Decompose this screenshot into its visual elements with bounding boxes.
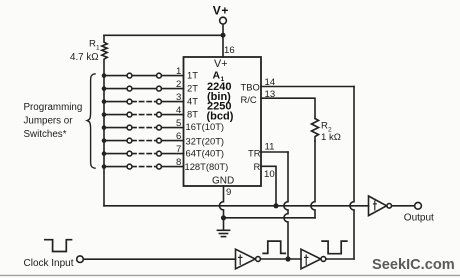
IC A1 2240(bin)/2250(bcd) programmable timer bbox=[184, 57, 262, 186]
wire jumper row 5 (dashed link) bbox=[104, 127, 127, 129]
node TR junction bbox=[285, 256, 290, 261]
svg-text:R/C: R/C bbox=[241, 94, 257, 105]
waveform: clock input negative pulse bbox=[45, 240, 72, 252]
wire pin 9 GND drop with hop over output bus bbox=[219, 186, 223, 218]
svg-text:4: 4 bbox=[176, 105, 182, 116]
svg-text:64T(40T): 64T(40T) bbox=[186, 148, 225, 159]
svg-text:Output: Output bbox=[404, 213, 434, 224]
svg-text:3: 3 bbox=[176, 92, 181, 103]
node row4 dot bbox=[102, 112, 107, 117]
svg-text:Switches*: Switches* bbox=[24, 129, 67, 140]
wire pin 10 R bbox=[261, 166, 276, 204]
wire jumper row 8 (dashed link) bbox=[104, 166, 127, 168]
inverter U3 bbox=[301, 249, 321, 269]
svg-text:2: 2 bbox=[176, 79, 181, 90]
node ground junction bbox=[221, 215, 226, 220]
node row5 dot bbox=[102, 125, 107, 130]
svg-text:R: R bbox=[89, 39, 96, 50]
svg-text:TR: TR bbox=[248, 148, 261, 159]
wire pin 13 R/C bbox=[261, 98, 315, 118]
svg-text:8T: 8T bbox=[187, 108, 198, 119]
svg-text:Jumpers or: Jumpers or bbox=[24, 116, 74, 127]
node row2 dot bbox=[102, 86, 107, 91]
V+ supply terminal bbox=[220, 17, 227, 24]
svg-text:R: R bbox=[254, 161, 261, 172]
svg-text:SeekIC.com: SeekIC.com bbox=[372, 257, 455, 273]
ground bbox=[223, 218, 225, 230]
wire clock to inverter 1 bbox=[84, 258, 236, 260]
svg-text:8: 8 bbox=[176, 157, 181, 168]
node row7 dot bbox=[102, 151, 107, 156]
node row1 dot bbox=[102, 73, 107, 78]
svg-text:Clock Input: Clock Input bbox=[24, 258, 74, 269]
svg-text:GND: GND bbox=[212, 176, 234, 187]
wire pin 11 TR with hops, to inverter1 output node bbox=[261, 151, 288, 153]
dagger symbols in inverters bbox=[238, 201, 377, 266]
resistor R2 bbox=[312, 119, 319, 142]
wire jumper row 6 (dashed link) bbox=[104, 140, 127, 142]
node R-pin to bus junction bbox=[273, 203, 278, 208]
svg-text:32T(20T): 32T(20T) bbox=[186, 136, 225, 147]
waveform: positive pulse after inverter1 bbox=[263, 241, 285, 253]
wire V+ drop to pin 16 bbox=[222, 24, 224, 57]
svg-text:9: 9 bbox=[226, 187, 231, 198]
svg-text:128T(80T): 128T(80T) bbox=[185, 161, 229, 172]
wire output bus (timer outputs) bbox=[104, 205, 369, 207]
wire jumper row 7 (dashed link) bbox=[104, 153, 127, 155]
wire jumper row 1 bbox=[104, 75, 127, 77]
svg-text:V+: V+ bbox=[214, 58, 228, 70]
wire inverter1 out to inverter2 in bbox=[261, 258, 302, 260]
bottom border line bbox=[0, 275, 460, 276]
svg-text:V+: V+ bbox=[213, 4, 229, 18]
node V+ junction bbox=[221, 33, 226, 38]
svg-text:1T: 1T bbox=[187, 69, 198, 80]
svg-text:16: 16 bbox=[224, 45, 235, 56]
svg-text:10: 10 bbox=[264, 169, 275, 180]
wire jumper row 4 (dashed link) bbox=[104, 114, 127, 116]
svg-text:A: A bbox=[213, 70, 221, 82]
wire TBO vertical with hop over bus, down to inverter2 output bbox=[350, 87, 354, 260]
svg-text:16T(10T): 16T(10T) bbox=[186, 121, 225, 132]
svg-text:1: 1 bbox=[176, 66, 181, 77]
output terminal bbox=[415, 202, 422, 209]
wire to output terminal bbox=[392, 205, 415, 207]
svg-text:1 kΩ: 1 kΩ bbox=[321, 132, 341, 143]
svg-text:Programming: Programming bbox=[24, 102, 83, 113]
resistor R1 bbox=[102, 35, 107, 75]
wire pin 14 TBO bbox=[261, 86, 354, 88]
wire left bus bbox=[103, 76, 105, 206]
svg-text:2T: 2T bbox=[187, 82, 198, 93]
svg-text:TBO: TBO bbox=[241, 82, 260, 93]
wire jumper row 2 bbox=[104, 88, 127, 90]
wire ground rail to R2 bbox=[224, 217, 316, 219]
svg-text:1: 1 bbox=[96, 45, 100, 52]
svg-text:5: 5 bbox=[176, 118, 181, 129]
wire jumper row 3 (dashed link) bbox=[104, 101, 127, 103]
node row8 dot bbox=[102, 164, 107, 169]
wire R2 bottom to ground rail (hop over bus) bbox=[311, 141, 315, 218]
brace for programming jumpers bbox=[87, 74, 95, 168]
inverter U4 (output buffer) bbox=[369, 196, 387, 216]
svg-text:14: 14 bbox=[265, 77, 276, 88]
svg-text:4.7 kΩ: 4.7 kΩ bbox=[70, 52, 99, 63]
svg-text:6: 6 bbox=[176, 131, 181, 142]
waveform: negative pulse after inverter2 bbox=[322, 241, 347, 254]
node row3 dot bbox=[102, 99, 107, 104]
svg-text:13: 13 bbox=[265, 89, 276, 100]
svg-text:R: R bbox=[321, 121, 328, 132]
wire V+ to R1 top bbox=[104, 34, 223, 36]
svg-text:4T: 4T bbox=[187, 95, 198, 106]
node row6 dot bbox=[102, 138, 107, 143]
inverter U2 (clock buffer) bbox=[236, 249, 256, 269]
clock input terminal bbox=[77, 256, 84, 263]
svg-text:11: 11 bbox=[265, 142, 275, 153]
svg-text:7: 7 bbox=[176, 144, 181, 155]
